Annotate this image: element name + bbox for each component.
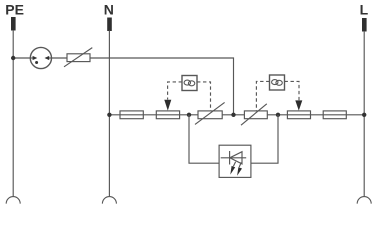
disconnector rect 4 (L side) [323,111,346,119]
junction node left LED drop [187,113,191,117]
svg-text:PE: PE [5,1,24,17]
monitor contact box left [182,76,197,91]
svg-text:N: N [104,1,114,17]
junction node N / bus [107,113,111,117]
monitor contact symbol right [272,80,283,86]
plug contact PE (bottom) [6,197,20,204]
thermal trigger triangle right [295,100,302,110]
main bus wire N to L [109,114,364,116]
plug contact N (bottom) [102,197,116,204]
wire LED left branch [189,115,219,163]
thermal trigger triangle left [164,100,171,111]
wire L vertical [363,31,365,197]
varistor 1 on bus [195,102,225,124]
varistor in PE path [64,48,92,67]
wire PE vertical [12,30,14,197]
LED symbol [221,151,247,176]
junction node center / bus [231,113,235,117]
monitor contact symbol left [184,80,195,86]
terminal stud L [362,18,367,32]
dashed link left box to varistor 1 [197,82,211,111]
thermal disconnector rect 2 (N side) [156,111,179,119]
plug contact L (bottom) [357,197,371,204]
thermal disconnector rect 3 (L side) [287,111,310,119]
junction node L / bus [362,113,366,117]
terminal stud N [107,18,112,32]
terminal label PE [5,1,24,17]
junction node right LED drop [276,113,280,117]
disconnector rect 1 (N side) [120,111,143,119]
dashed link right box to thermal trigger [285,81,300,100]
wire N vertical [108,31,110,197]
terminal stud PE [11,17,16,31]
varistor 2 on bus [241,104,267,125]
terminal label L [360,1,369,17]
spark gap (gas discharge tube) PE-side [30,47,51,68]
junction node PE / top row [11,56,15,60]
svg-text:L: L [360,1,369,17]
wire top row from PE to center drop onto bus [13,58,233,115]
dashed link right box to varistor 2 [256,81,269,110]
monitor contact box right [270,75,285,90]
dashed link left box to thermal trigger [168,82,182,100]
wire LED right branch [251,115,278,163]
LED indicator box [219,145,251,177]
terminal label N [104,1,114,17]
